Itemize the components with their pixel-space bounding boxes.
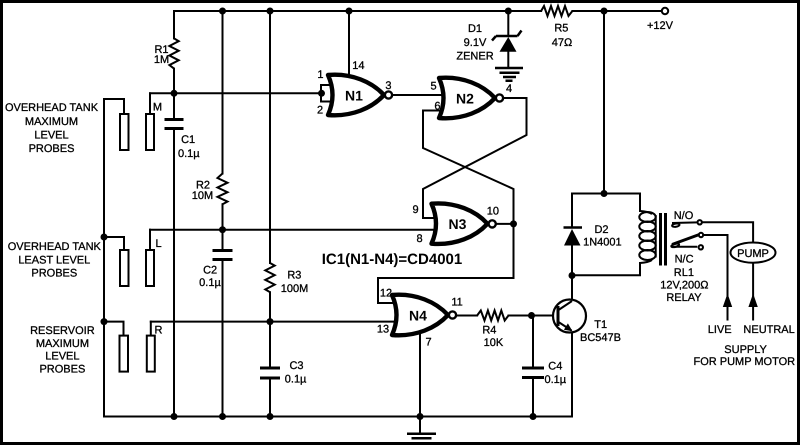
svg-text:PROBES: PROBES bbox=[29, 143, 75, 155]
svg-text:ZENER: ZENER bbox=[456, 50, 493, 62]
svg-text:FOR PUMP MOTOR: FOR PUMP MOTOR bbox=[693, 356, 795, 368]
svg-text:1N4001: 1N4001 bbox=[583, 237, 622, 249]
svg-text:MAXIMUM: MAXIMUM bbox=[36, 338, 89, 350]
svg-text:10M: 10M bbox=[192, 190, 213, 202]
svg-text:IC1(N1-N4)=CD4001: IC1(N1-N4)=CD4001 bbox=[322, 251, 462, 268]
svg-text:M: M bbox=[153, 101, 162, 113]
svg-text:D1: D1 bbox=[468, 23, 482, 35]
svg-text:C3: C3 bbox=[289, 360, 303, 372]
svg-text:R5: R5 bbox=[554, 23, 568, 35]
svg-text:RESERVOIR: RESERVOIR bbox=[30, 325, 95, 337]
svg-text:47Ω: 47Ω bbox=[552, 37, 572, 49]
svg-text:NEUTRAL: NEUTRAL bbox=[743, 324, 794, 336]
svg-text:OVERHEAD TANK: OVERHEAD TANK bbox=[8, 241, 102, 253]
svg-text:+12V: +12V bbox=[647, 20, 674, 32]
svg-text:11: 11 bbox=[451, 296, 462, 308]
svg-text:BC547B: BC547B bbox=[580, 332, 621, 344]
svg-text:1: 1 bbox=[317, 69, 323, 81]
svg-text:PROBES: PROBES bbox=[31, 268, 77, 280]
svg-text:4: 4 bbox=[506, 83, 512, 95]
svg-text:8: 8 bbox=[416, 233, 422, 245]
svg-text:D2: D2 bbox=[594, 224, 608, 236]
svg-text:10: 10 bbox=[487, 206, 499, 218]
svg-text:LIVE: LIVE bbox=[708, 324, 732, 336]
svg-text:RELAY: RELAY bbox=[666, 292, 702, 304]
svg-text:10K: 10K bbox=[484, 337, 504, 349]
svg-text:C2: C2 bbox=[203, 265, 217, 277]
svg-text:N4: N4 bbox=[409, 307, 427, 323]
svg-text:LEAST LEVEL: LEAST LEVEL bbox=[18, 255, 90, 267]
svg-text:C4: C4 bbox=[548, 361, 562, 373]
svg-text:N1: N1 bbox=[345, 87, 363, 103]
svg-text:13: 13 bbox=[377, 324, 389, 336]
svg-text:R4: R4 bbox=[482, 324, 496, 336]
svg-text:R3: R3 bbox=[287, 270, 301, 282]
svg-text:0.1µ: 0.1µ bbox=[544, 374, 566, 386]
svg-text:C1: C1 bbox=[181, 134, 195, 146]
svg-text:0.1µ: 0.1µ bbox=[285, 373, 307, 385]
svg-text:0.1µ: 0.1µ bbox=[199, 277, 221, 289]
svg-text:0.1µ: 0.1µ bbox=[178, 148, 200, 160]
svg-text:100M: 100M bbox=[281, 283, 309, 295]
svg-text:PROBES: PROBES bbox=[39, 364, 85, 376]
svg-text:3: 3 bbox=[385, 80, 391, 92]
svg-text:2: 2 bbox=[317, 105, 323, 117]
svg-text:7: 7 bbox=[426, 337, 432, 349]
svg-text:9: 9 bbox=[412, 204, 418, 216]
svg-text:SUPPLY: SUPPLY bbox=[724, 344, 767, 356]
svg-text:LEVEL: LEVEL bbox=[45, 351, 79, 363]
svg-text:14: 14 bbox=[352, 60, 364, 72]
svg-text:T1: T1 bbox=[594, 319, 607, 331]
svg-text:LEVEL: LEVEL bbox=[34, 130, 68, 142]
svg-text:N3: N3 bbox=[449, 216, 467, 232]
svg-text:RL1: RL1 bbox=[674, 267, 694, 279]
svg-text:12V,200Ω: 12V,200Ω bbox=[660, 280, 708, 292]
svg-text:L: L bbox=[155, 238, 161, 250]
svg-text:1M: 1M bbox=[154, 54, 169, 66]
svg-text:6: 6 bbox=[434, 101, 440, 113]
svg-text:OVERHEAD TANK: OVERHEAD TANK bbox=[5, 102, 99, 114]
svg-text:12: 12 bbox=[380, 287, 392, 299]
svg-text:N/O: N/O bbox=[674, 210, 694, 222]
svg-text:N2: N2 bbox=[456, 90, 474, 106]
svg-text:5: 5 bbox=[431, 80, 437, 92]
svg-text:N/C: N/C bbox=[675, 254, 694, 266]
svg-text:PUMP: PUMP bbox=[737, 248, 769, 260]
svg-text:9.1V: 9.1V bbox=[464, 37, 487, 49]
svg-text:MAXIMUM: MAXIMUM bbox=[25, 116, 78, 128]
svg-text:R: R bbox=[155, 325, 163, 337]
